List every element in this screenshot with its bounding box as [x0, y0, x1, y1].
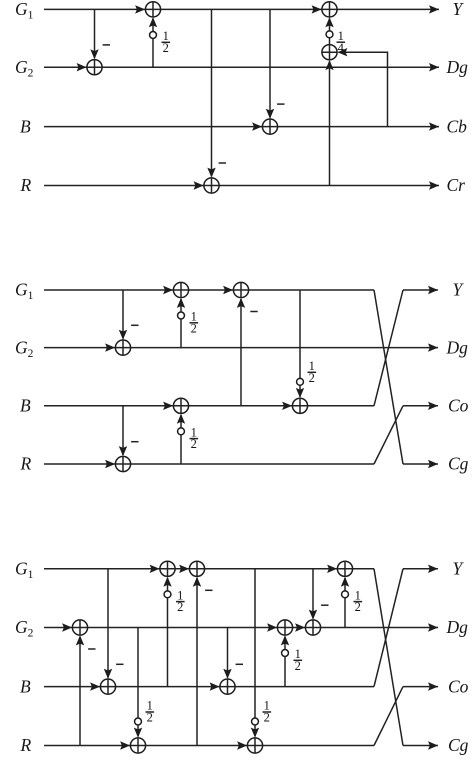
svg-text:2: 2	[147, 711, 153, 725]
minus sign at T5	[250, 311, 257, 313]
adder U1 (G2 minus R)	[72, 620, 87, 635]
arrowhead into S6 bottom	[325, 17, 333, 27]
svg-text:2: 2	[264, 711, 270, 725]
wire row G1	[44, 568, 374, 570]
wire row B-Cb	[44, 126, 439, 128]
wire row G1-Y	[44, 8, 439, 10]
gain node M7 half	[164, 591, 171, 598]
svg-text:2: 2	[355, 600, 361, 614]
svg-text:Dg: Dg	[446, 337, 469, 357]
adder T4 (B plus half)	[173, 398, 188, 413]
arrowhead into T1 top	[119, 330, 127, 340]
adder U7 (R plus half)	[247, 738, 262, 753]
svg-text:G2: G2	[15, 57, 34, 80]
adder U8 (G2 plus half)	[277, 620, 292, 635]
wire B branch down to T2	[122, 406, 124, 455]
wire B branch up to U4	[167, 578, 169, 687]
wire stub Co	[403, 405, 438, 407]
svg-text:4: 4	[338, 41, 345, 55]
svg-text:Cg: Cg	[448, 454, 469, 474]
adder T5 (G1 minus B)	[233, 282, 248, 297]
wire row G2-Dg	[44, 627, 438, 629]
minus sign at U9	[321, 604, 328, 606]
adder S1 (G2 minus G1)	[87, 60, 102, 75]
gain label half at T4	[190, 425, 199, 451]
gain label half at S2	[162, 29, 171, 55]
arrowhead into Y	[428, 286, 438, 294]
svg-text:Cb: Cb	[447, 116, 468, 136]
gain node M10 half	[342, 591, 349, 598]
svg-text:Co: Co	[448, 676, 469, 696]
svg-text:2: 2	[191, 437, 197, 451]
arrowhead into U6 left	[210, 682, 220, 690]
gain label half at T6	[308, 359, 317, 385]
wire G1 branch down to U9	[312, 569, 314, 619]
wire Y branch down to S3	[211, 9, 213, 176]
svg-text:G1: G1	[15, 0, 34, 22]
wire R branch up to T4	[180, 415, 182, 464]
wire Cr branch up to S5	[329, 61, 331, 185]
adder U2 (B minus G1)	[100, 679, 115, 694]
wire G2 branch down to U3	[137, 628, 139, 737]
arrowhead into U8 bottom	[281, 635, 289, 645]
adder U5 (G1 minus R)	[189, 561, 204, 576]
arrowhead into Y	[429, 5, 439, 13]
minus sign at U6	[236, 663, 243, 665]
wire row G2-Dg	[44, 66, 439, 68]
arrowhead into T4 left	[163, 402, 173, 410]
wire row G1	[44, 289, 374, 291]
wire B branch up to U8	[284, 637, 286, 687]
svg-text:R: R	[20, 735, 32, 755]
svg-text:G2: G2	[15, 337, 34, 360]
svg-text:G1: G1	[15, 280, 34, 303]
arrowhead into U10 bottom	[341, 577, 349, 587]
wire stub Cg	[403, 463, 438, 465]
gain node M9 half	[282, 650, 289, 657]
arrowhead into Cr	[429, 181, 439, 189]
minus sign at U5	[205, 589, 212, 591]
arrowhead into T3 left	[163, 286, 173, 294]
arrowhead into T3 bottom	[177, 298, 185, 308]
svg-text:B: B	[20, 116, 31, 136]
arrowhead into T6 top	[296, 388, 304, 398]
arrowhead into U1 bottom	[76, 635, 84, 645]
arrowhead into U7 top	[251, 728, 259, 738]
wire Cb feedback to S5	[339, 52, 388, 126]
svg-text:2: 2	[191, 321, 197, 335]
wire row G2-Dg	[44, 347, 438, 349]
gain node M4 half	[178, 428, 185, 435]
gain node M8 half	[252, 718, 259, 725]
arrowhead into Y	[428, 565, 438, 573]
arrowhead into T4 bottom	[177, 414, 185, 424]
arrowhead into T1 left	[105, 343, 115, 351]
arrowhead into S5 bottom	[325, 60, 333, 70]
svg-text:2: 2	[295, 659, 301, 673]
svg-text:G2: G2	[15, 617, 34, 640]
arrowhead into T5 bottom	[237, 298, 245, 308]
wire row R-Cr	[44, 185, 439, 187]
wire stub Y	[403, 289, 438, 291]
arrowhead into U5 left	[179, 565, 189, 573]
gain label half at U4	[176, 588, 185, 614]
diagram 1 : G1 G2 B R to Y Dg Cb Cr transform	[15, 0, 468, 195]
adder T2 (R minus B)	[115, 456, 130, 471]
arrowhead into Cb	[429, 122, 439, 130]
arrowhead into U1 left	[62, 623, 72, 631]
arrowhead into Cg	[428, 460, 438, 468]
wire row B	[44, 686, 374, 688]
arrowhead into T2 left	[105, 460, 115, 468]
minus sign at S3	[219, 162, 226, 164]
arrowhead into U4 left	[150, 565, 160, 573]
svg-text:Y: Y	[453, 0, 465, 19]
adder S6 (Y plus quarter)	[322, 2, 337, 17]
adder U6 (B minus G2)	[220, 679, 235, 694]
arrowhead into U2 left	[90, 682, 100, 690]
diagram 3 : G1 G2 B R to Y Dg Co Cg transform, variant	[15, 559, 469, 756]
wire G1 branch down to T6	[299, 290, 301, 397]
arrowhead into U7 left	[237, 741, 247, 749]
wire stub Y	[403, 568, 438, 570]
svg-text:Y: Y	[453, 280, 465, 300]
adder T3 (G1 plus half)	[173, 282, 188, 297]
gain node M6 half	[135, 718, 142, 725]
gain label half at U10	[354, 588, 363, 614]
wire G2 branch up to U10	[344, 578, 346, 628]
diagram 2 : G1 G2 B R to Y Dg Co Cg transform	[15, 280, 469, 474]
wire Y branch down to S4	[269, 9, 271, 117]
svg-text:Cr: Cr	[447, 175, 466, 195]
svg-text:2: 2	[309, 371, 315, 385]
arrowhead into U3 top	[134, 728, 142, 738]
gain label quarter at S6	[337, 29, 346, 55]
arrowhead into U6 top	[223, 669, 231, 679]
wire G1 branch down to S1	[94, 9, 96, 58]
adder U10 (G1 plus half)	[337, 561, 352, 576]
arrowhead into S1 top	[90, 49, 98, 59]
adder U9 (G2 minus G1)	[305, 620, 320, 635]
adder T1 (G2 minus G1)	[115, 340, 130, 355]
wire diagonal B to Y	[374, 290, 403, 406]
wire B branch up to T5	[240, 299, 242, 406]
arrowhead into S4 left	[252, 122, 262, 130]
svg-text:Co: Co	[448, 396, 469, 416]
adder S3 (R minus Y)	[204, 178, 219, 193]
arrowhead into T5 left	[223, 286, 233, 294]
wire diagonal B to Y	[374, 569, 403, 687]
gain node M3 half	[178, 312, 185, 319]
gain node M1 half	[150, 32, 157, 39]
arrowhead into U5 bottom	[193, 577, 201, 587]
svg-text:B: B	[20, 676, 31, 696]
arrowhead into S1 left	[77, 63, 87, 71]
arrowhead into S2 left	[135, 5, 145, 13]
arrowhead into T6 left	[282, 402, 292, 410]
wire G1 branch down to U7	[254, 569, 256, 737]
svg-text:R: R	[20, 454, 32, 474]
wire diagonal G1 to Cg	[374, 290, 403, 464]
wire row B	[44, 405, 374, 407]
adder S4 (B minus Y)	[262, 119, 277, 134]
wire G2 branch down to U6	[227, 628, 229, 678]
wire stub Co	[403, 686, 438, 688]
wire row R	[44, 463, 374, 465]
arrowhead into T2 top	[119, 446, 127, 456]
svg-text:Cg: Cg	[448, 735, 469, 755]
wire R branch up to U1	[79, 637, 81, 746]
arrowhead into S4 top	[266, 109, 274, 119]
svg-text:2: 2	[177, 600, 183, 614]
arrowhead into Dg	[428, 343, 438, 351]
arrowhead into U8 left	[267, 623, 277, 631]
svg-text:R: R	[20, 175, 32, 195]
arrowhead into Co	[428, 402, 438, 410]
wire diagonal R to Co	[374, 406, 403, 464]
arrowhead into S5 right	[337, 48, 347, 56]
arrowhead into U3 left	[120, 741, 130, 749]
wire stub Cg	[403, 745, 438, 747]
wire Dg branch up to S2	[152, 18, 154, 67]
arrowhead into S3 top	[207, 168, 215, 178]
gain label half at U7	[263, 699, 272, 725]
wire S5 output up to S6	[329, 18, 331, 44]
minus sign at U2	[116, 663, 123, 665]
svg-text:Dg: Dg	[446, 617, 469, 637]
wire row R	[44, 745, 374, 747]
wire diagonal R to Co	[374, 687, 403, 746]
svg-text:G1: G1	[15, 559, 34, 582]
arrowhead into Dg	[429, 63, 439, 71]
adder U4 (G1 plus half)	[160, 561, 175, 576]
wire R branch up to U5	[196, 578, 198, 746]
arrowhead into Co	[428, 682, 438, 690]
wire G2 branch up to T3	[180, 299, 182, 348]
arrowhead into U10 left	[327, 565, 337, 573]
arrowhead into Dg	[428, 623, 438, 631]
adder U3 (R plus half)	[130, 738, 145, 753]
gain label half at U3	[146, 699, 155, 725]
svg-text:Dg: Dg	[446, 57, 469, 77]
arrowhead into U2 top	[104, 669, 112, 679]
minus sign at T1	[131, 324, 138, 326]
arrowhead into U4 bottom	[163, 577, 171, 587]
minus sign at T2	[131, 441, 138, 443]
minus sign at S4	[277, 103, 284, 105]
arrowhead into U9 top	[309, 610, 317, 620]
gain node M2 quarter	[326, 31, 333, 38]
svg-text:B: B	[20, 396, 31, 416]
svg-text:Y: Y	[453, 559, 465, 579]
arrowhead into S3 left	[194, 181, 204, 189]
wire diagonal G1 to Cg	[374, 569, 403, 746]
adder S2 (G1 plus half Dg)	[145, 2, 160, 17]
gain label half at U8	[294, 647, 303, 673]
adder S5 (Cr plus Cb)	[322, 45, 337, 60]
minus sign at U1	[88, 648, 95, 650]
svg-text:2: 2	[163, 41, 169, 55]
wire G1 branch down to U2	[107, 569, 109, 678]
gain node M5 half	[297, 378, 304, 385]
adder T6 (B plus half Y)	[292, 398, 307, 413]
arrowhead into S6 left	[312, 5, 322, 13]
arrowhead into Cg	[428, 741, 438, 749]
arrowhead into S2 bottom	[149, 17, 157, 27]
wire G1 branch down to T1	[122, 290, 124, 339]
gain label half at T3	[190, 310, 199, 336]
arrowhead into U9 left	[295, 623, 305, 631]
minus sign at S1	[103, 44, 110, 46]
